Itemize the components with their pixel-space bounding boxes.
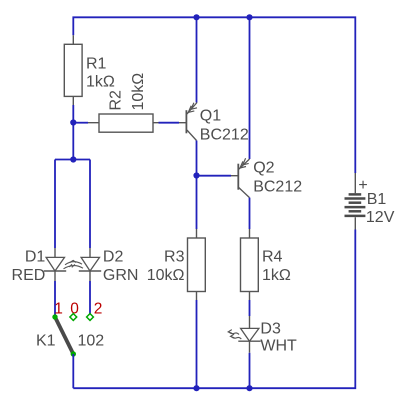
LED D3 light arrows	[228, 330, 241, 339]
resistor R2	[88, 73, 159, 132]
svg-text:102: 102	[78, 332, 105, 349]
wire R3 bottom to ground rail	[196, 300, 198, 388]
wire top rail from R1 top to battery top	[73, 17, 355, 173]
wire Q2 collector to R4	[249, 198, 251, 229]
svg-text:1kΩ: 1kΩ	[86, 74, 115, 91]
svg-text:R3: R3	[164, 249, 185, 266]
resistor R3	[147, 229, 206, 300]
svg-text:R2: R2	[108, 90, 125, 111]
resistor R4	[241, 229, 291, 300]
resistor R1	[64, 35, 115, 105]
wire node to R3	[196, 176, 198, 230]
wire bottom rail	[73, 230, 355, 389]
svg-text:Q2: Q2	[253, 160, 274, 177]
wire Q2 emitter to top rail	[249, 17, 251, 159]
wire switch common to ground rail	[72, 354, 74, 388]
node Q1 collector junction	[193, 172, 199, 178]
wire R2 left	[73, 122, 88, 124]
LED D3	[238, 316, 297, 354]
switch pin 2 contact diamond	[87, 314, 94, 321]
node top junction A	[193, 14, 199, 20]
wire split to D2	[89, 160, 91, 249]
wire R2 to Q1 base	[159, 122, 180, 124]
wire D2 to switch pin 2	[89, 281, 91, 314]
svg-text:12V: 12V	[366, 209, 395, 226]
switch pin 0 contact diamond	[70, 314, 77, 321]
LED D1	[12, 248, 67, 284]
svg-text:BC212: BC212	[200, 126, 249, 143]
svg-text:RED: RED	[12, 267, 46, 284]
switch pivot dot	[71, 351, 76, 356]
node bottom junction D3	[246, 385, 252, 391]
svg-text:GRN: GRN	[103, 267, 139, 284]
node top junction B	[246, 14, 252, 20]
transistor Q2	[231, 158, 302, 197]
svg-text:B1: B1	[367, 191, 387, 208]
transistor Q1	[179, 103, 249, 144]
wire Q1 emitter to top rail	[196, 17, 198, 102]
svg-text:R1: R1	[86, 56, 107, 73]
wire split to D1	[54, 160, 56, 249]
svg-text:1kΩ: 1kΩ	[262, 267, 291, 284]
svg-text:D3: D3	[260, 320, 281, 337]
battery B1	[345, 173, 395, 230]
svg-text:2: 2	[94, 301, 103, 318]
LED D2	[79, 248, 139, 284]
switch pin 1 contact dot	[52, 314, 57, 319]
svg-text:WHT: WHT	[260, 337, 297, 354]
wire D1 to switch pin 1	[54, 281, 56, 315]
svg-text:R4: R4	[262, 249, 283, 266]
svg-text:10kΩ: 10kΩ	[147, 267, 185, 284]
svg-text:D2: D2	[103, 249, 124, 266]
wire LED split horizontal	[55, 159, 90, 161]
wire R4 bottom to D3	[249, 300, 251, 316]
svg-text:BC212: BC212	[253, 179, 302, 196]
svg-text:K1: K1	[36, 332, 56, 349]
switch lever	[55, 317, 73, 354]
svg-text:10kΩ: 10kΩ	[130, 73, 147, 111]
wire node to Q2 base	[197, 175, 232, 177]
wire D3 to ground rail	[249, 353, 251, 388]
node bottom junction R3	[193, 385, 199, 391]
switch K1	[36, 301, 104, 357]
wire Q1 collector to node	[196, 141, 198, 176]
node R2 tap	[70, 119, 76, 125]
wire left rail R1 to LED split	[72, 105, 74, 160]
node LED split	[70, 156, 76, 162]
svg-text:D1: D1	[25, 249, 46, 266]
LED D1 light arrows	[64, 260, 84, 268]
svg-text:Q1: Q1	[200, 107, 221, 124]
